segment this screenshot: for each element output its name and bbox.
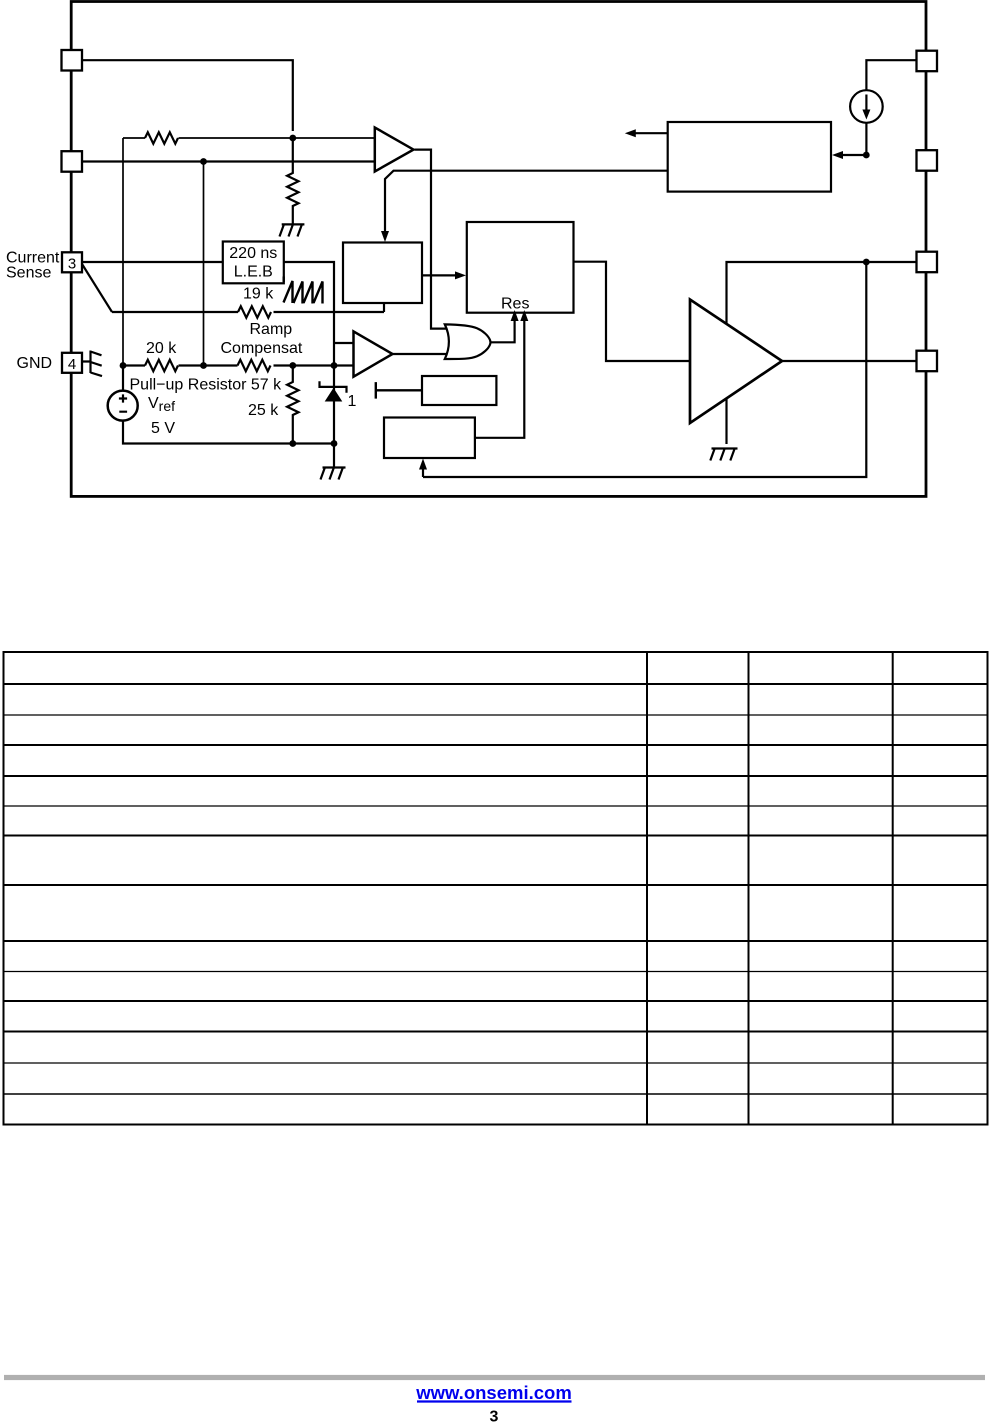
svg-text:GND: GND <box>17 355 53 372</box>
electrode symbol into B4 <box>376 382 422 399</box>
wire: vertical x=123 from feedback line down to Vref rail <box>122 138 124 366</box>
node J2 at (203.5,161.5) <box>200 158 207 165</box>
comparator U2 <box>354 331 393 376</box>
node J7 (292.8,443.5) <box>289 440 296 447</box>
pin 2 left <box>62 151 83 172</box>
svg-text:1: 1 <box>348 393 357 410</box>
wire: B3 to Res arrow 2 <box>475 319 524 438</box>
ground G2 at pin 4 <box>82 351 102 377</box>
table column line 3 <box>892 652 894 1125</box>
resistor 57k <box>238 360 271 371</box>
wire: long bottom line y=477 to right rail <box>423 262 866 477</box>
wire: pin3L to LEB box <box>82 261 223 263</box>
wire: diagonal from pin3 to ramp line <box>82 264 112 312</box>
voltage source Vref 5V <box>108 391 138 421</box>
node J5 (292.8,365.5) <box>289 362 296 369</box>
svg-text:25 k: 25 k <box>248 402 279 419</box>
ground G1 below R2 <box>280 224 305 236</box>
arrow into B5 right side <box>842 154 866 156</box>
wire: driver output to pin4R <box>782 360 917 362</box>
block B1 (sample) <box>343 243 422 304</box>
wire: LEB output right, down, tee to comparator U2 input <box>284 262 354 366</box>
node J8 (334,443.5) <box>331 440 338 447</box>
wire: right rail y=262 <box>727 262 917 325</box>
pin 1 right <box>917 51 938 71</box>
resistor R2 (vertical at x=292.8) <box>287 138 298 224</box>
wire: long line y=170.7 from bevel to block B5 <box>385 171 668 233</box>
pin 3 left <box>62 252 82 272</box>
wire: stub from B1 bottom to ramp line <box>383 303 385 312</box>
svg-text:19 k: 19 k <box>243 286 274 303</box>
OR gate U4 <box>445 324 491 359</box>
resistor 25k <box>287 366 298 444</box>
arrow up into B3 bottom <box>422 467 424 477</box>
svg-text:Ramp: Ramp <box>250 321 293 338</box>
resistor 20k <box>145 360 178 371</box>
wire: ramp compensation line y=312 <box>112 311 384 313</box>
IC boundary <box>71 2 926 497</box>
node J10 (866.3,262) <box>863 259 870 266</box>
wire: B2 output right, down, to driver input <box>574 262 691 361</box>
table column line 2 <box>748 652 750 1125</box>
svg-text:20 k: 20 k <box>146 340 177 357</box>
node J6 (334,365.5) <box>331 362 338 369</box>
pin 4 right <box>917 351 938 372</box>
pin 4 left <box>62 353 82 373</box>
node J9 (866.3,155) <box>863 152 870 159</box>
node J3 (123,365.5) <box>120 362 127 369</box>
block B4 <box>422 376 496 405</box>
wire: OR output up into B2 (Res arrow 1) <box>490 319 514 342</box>
svg-text:5 V: 5 V <box>151 420 175 437</box>
block B3 <box>384 418 475 459</box>
pin 2 right <box>917 150 938 171</box>
Vref rail y=365.5 <box>123 364 354 366</box>
wire: U2 output to OR input 2 <box>393 353 447 355</box>
current source I1 <box>850 90 883 123</box>
comparator U1 <box>375 128 414 172</box>
arrow into block B1 top <box>381 231 389 242</box>
block LEB box <box>223 242 284 284</box>
wire: pin1R to current source <box>866 60 916 90</box>
ground G4 below driver <box>710 449 737 461</box>
table outer border <box>4 652 988 1125</box>
table column line 1 <box>646 652 648 1125</box>
svg-text:Vref: Vref <box>148 395 175 414</box>
table row lines <box>4 683 988 685</box>
wire: vertical x=203.5 down to Vref rail <box>203 162 205 366</box>
svg-text:L.E.B: L.E.B <box>234 264 273 281</box>
svg-text:3: 3 <box>68 256 76 273</box>
svg-text:4: 4 <box>68 356 76 373</box>
svg-text:3: 3 <box>490 1409 499 1422</box>
zener D1 <box>320 381 347 392</box>
resistor R1 (horizontal, y=138) <box>145 132 178 143</box>
svg-text:Res: Res <box>501 296 529 313</box>
sawtooth icon <box>284 277 323 304</box>
svg-text:Sense: Sense <box>6 265 51 282</box>
ground G3 below zener <box>321 444 346 480</box>
svg-text:Compensat: Compensat <box>221 340 303 357</box>
node J1 at (292.8,138) <box>289 135 296 142</box>
svg-text:www.onsemi.com: www.onsemi.com <box>415 1382 572 1403</box>
wire: pin2L line y=161.5 to comparator U1 <box>82 160 374 162</box>
wire: pin1L to vertical drop <box>82 60 293 131</box>
block B2 (PWM latch) <box>467 222 574 313</box>
footer rule <box>4 1375 985 1380</box>
wire: current source bottom to node J9 and down <box>865 123 867 155</box>
block B5 (right top) <box>668 122 831 192</box>
svg-text:220 ns: 220 ns <box>229 245 277 262</box>
wire: U1 output to OR gate input 1 <box>415 150 447 329</box>
resistor 19k <box>238 306 271 317</box>
table grid <box>4 652 988 1125</box>
driver U3 <box>690 300 782 424</box>
pin 3 right <box>917 252 938 273</box>
wire: feedback line y=138 <box>123 137 374 139</box>
wire: B1 to B2 with arrow <box>422 274 457 276</box>
wire: driver ground stub <box>725 399 727 444</box>
arrow out of B5 left <box>635 132 668 134</box>
node J4 (203.5,365.5) <box>200 362 207 369</box>
svg-text:Pull−up Resistor 57 k: Pull−up Resistor 57 k <box>130 377 283 394</box>
pin 1 left <box>62 50 83 71</box>
